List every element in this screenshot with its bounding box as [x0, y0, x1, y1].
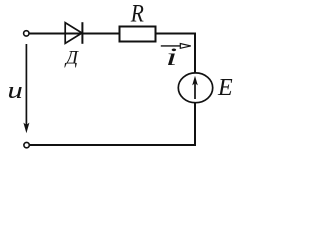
svg-text:E: E — [217, 75, 233, 101]
svg-text:Д: Д — [64, 47, 79, 68]
svg-text:R: R — [130, 0, 144, 28]
svg-text:i: i — [166, 43, 178, 71]
svg-text:u: u — [7, 77, 22, 104]
